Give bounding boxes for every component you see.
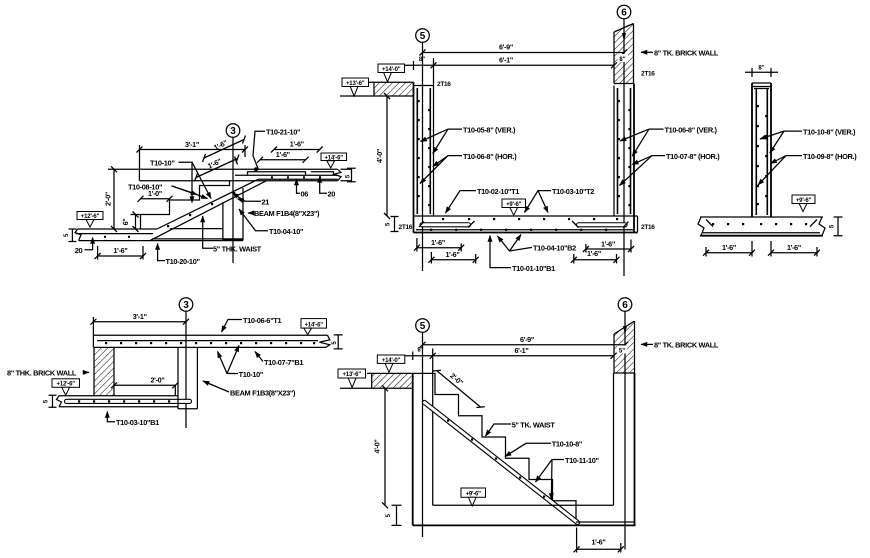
svg-text:+9'-6": +9'-6" — [466, 492, 482, 498]
base slab — [414, 216, 638, 233]
svg-text:T10-20-10": T10-20-10" — [166, 257, 201, 266]
steps — [412, 373, 576, 522]
dim 1'-6" (right) — [771, 252, 817, 254]
bottom landing dots — [104, 236, 130, 238]
svg-text:1'-6": 1'-6" — [113, 246, 127, 255]
svg-text:1'-6": 1'-6" — [587, 249, 601, 258]
dim 5" (right wall) — [617, 346, 627, 354]
svg-text:4'-0": 4'-0" — [373, 439, 382, 453]
grid bubble 6 — [618, 298, 632, 312]
grid bubble 5 — [416, 29, 430, 43]
grid bubble 5 — [416, 319, 430, 333]
top slab — [93, 335, 327, 347]
floor line right of flight — [170, 228, 223, 230]
svg-text:1'-6": 1'-6" — [601, 240, 615, 249]
svg-text:20: 20 — [75, 246, 83, 255]
left wall — [412, 373, 414, 525]
svg-text:+13'-6": +13'-6" — [343, 372, 362, 378]
dim 1'-6" (left) — [706, 252, 752, 254]
svg-text:8": 8" — [619, 57, 625, 63]
elevation marker +12'-6" — [77, 212, 103, 220]
lower slab dots — [78, 400, 170, 402]
elevation marker +12'-6" — [52, 379, 80, 388]
svg-text:T10-09-8" (HOR.): T10-09-8" (HOR.) — [803, 152, 857, 161]
dim 3'-1" — [93, 321, 186, 323]
svg-text:T10-10-8": T10-10-8" — [552, 440, 583, 449]
grid line 6 — [623, 19, 625, 276]
lower slab bar capsule — [67, 399, 190, 404]
dim 6" vertical — [135, 215, 137, 230]
dim 1'-6" (bottom right outer) — [586, 248, 631, 250]
svg-text:2T16: 2T16 — [641, 70, 655, 77]
top rebar T10-21 — [248, 172, 334, 175]
svg-text:T10-06-8" (VER.): T10-06-8" (VER.) — [665, 125, 718, 134]
dim 6'-1" — [434, 64, 615, 66]
elevation marker +14'-0" — [377, 355, 405, 363]
waist slope lines — [150, 179, 266, 240]
base slab bar capsule left — [422, 222, 469, 227]
lower slab — [59, 396, 178, 407]
svg-text:8" THK. BRICK WALL: 8" THK. BRICK WALL — [7, 369, 77, 378]
hatched floor slab (left) — [372, 373, 412, 388]
bracket + 5 (bottom left) — [392, 505, 402, 525]
dim 6'-9" — [423, 52, 625, 54]
VIEW-B — [340, 5, 720, 276]
svg-text:T10-10": T10-10" — [239, 370, 264, 379]
footing bar hooks — [706, 220, 817, 227]
svg-text:3'-1": 3'-1" — [185, 140, 199, 149]
svg-text:2T16: 2T16 — [641, 224, 655, 231]
dim 1'-6" (top right) — [274, 149, 320, 151]
svg-text:T10-03-10"B1: T10-03-10"B1 — [116, 418, 159, 427]
elevation marker +14'-0" — [378, 64, 405, 73]
landing bar dots — [271, 176, 321, 178]
grid line 3 — [232, 137, 234, 263]
grid line 6 — [624, 311, 626, 549]
rotated 5 (right end) — [346, 174, 352, 178]
grid line 3 — [185, 311, 187, 428]
svg-text:8": 8" — [419, 57, 425, 63]
grid line 5 — [422, 332, 424, 537]
T-wall stem — [752, 83, 771, 217]
rotated 5 (slab end) — [332, 341, 338, 345]
svg-text:1'-6": 1'-6" — [290, 140, 304, 149]
dim 2'-0" vertical — [113, 169, 115, 229]
right wall — [613, 86, 615, 217]
svg-text:T10-10-8" (VER.): T10-10-8" (VER.) — [803, 127, 856, 136]
svg-text:T10-04-10": T10-04-10" — [269, 227, 304, 236]
VIEW-C — [698, 65, 857, 256]
svg-text:T10-03-10"T2: T10-03-10"T2 — [552, 187, 594, 196]
svg-text:5": 5" — [619, 349, 625, 355]
svg-text:5: 5 — [420, 31, 426, 42]
svg-text:5: 5 — [420, 321, 426, 332]
end bracket (right) — [347, 168, 356, 182]
elevation marker +9'-6" — [792, 195, 815, 204]
svg-text:T10-21-10": T10-21-10" — [266, 127, 301, 136]
grid bubble 3 — [226, 124, 240, 138]
elevation marker +9'-6" — [502, 199, 526, 208]
landing top surface — [108, 168, 352, 170]
svg-text:5" TK. WAIST: 5" TK. WAIST — [512, 420, 556, 429]
svg-text:BEAM F1B4(8"X23"): BEAM F1B4(8"X23") — [254, 209, 320, 218]
dim 1'-6" (bottom) — [98, 255, 143, 257]
right wall rebar — [618, 88, 631, 214]
svg-text:+14'-6": +14'-6" — [305, 322, 324, 328]
brick wall (hatched, top right) — [614, 24, 634, 84]
dim 1'-6" sloped lower — [196, 159, 238, 178]
footing break left — [698, 217, 704, 236]
svg-text:6": 6" — [121, 219, 130, 226]
brick wall (hatched, top right) — [614, 321, 635, 373]
dim 1'-6" (bottom left outer) — [417, 247, 461, 249]
top slab dots — [105, 342, 315, 344]
svg-text:6'-9": 6'-9" — [499, 43, 513, 52]
svg-text:1'-6": 1'-6" — [431, 238, 445, 247]
svg-text:T10-02-10"T1: T10-02-10"T1 — [477, 187, 519, 196]
svg-text:T10-06-6"T1: T10-06-6"T1 — [243, 316, 282, 325]
VIEW-E — [338, 298, 719, 553]
svg-text:6: 6 — [622, 300, 628, 311]
dim 6'-9" — [423, 344, 626, 346]
svg-text:T10-07-7"B1: T10-07-7"B1 — [264, 358, 303, 367]
VIEW-D — [7, 298, 343, 428]
right wall — [613, 373, 615, 505]
dim 8" (left wall) — [405, 64, 434, 66]
grid arrow on wall top — [623, 326, 627, 335]
svg-text:21: 21 — [262, 198, 270, 207]
left wall rebar — [417, 88, 430, 214]
dim 1'-6" (bottom right) — [577, 548, 621, 550]
svg-text:6'-1": 6'-1" — [499, 56, 513, 65]
svg-text:3: 3 — [183, 300, 189, 311]
svg-text:2T16: 2T16 — [437, 81, 451, 88]
waist band dots — [447, 420, 545, 498]
svg-text:T10-08-10": T10-08-10" — [128, 182, 163, 191]
footing break right — [819, 217, 825, 236]
dim 8" (top) — [745, 71, 778, 73]
bottom landing slab — [76, 229, 243, 241]
svg-text:T10-11-10": T10-11-10" — [565, 456, 600, 465]
dim 2'-0" — [114, 384, 175, 386]
top slab rebar — [97, 340, 318, 342]
VIEW-A — [64, 124, 356, 266]
base slab bar capsule right — [579, 222, 626, 227]
bracket + 5 (bottom left) — [69, 229, 77, 242]
elevation marker +9'-6" — [461, 488, 486, 497]
waist bar band — [425, 403, 578, 523]
svg-text:T10-06-8" (HOR.): T10-06-8" (HOR.) — [463, 152, 517, 161]
svg-text:1'-6": 1'-6" — [445, 250, 459, 259]
elevation marker +13'-6" — [338, 369, 366, 378]
footing — [700, 217, 823, 233]
svg-text:T10-04-10"B2: T10-04-10"B2 — [533, 244, 576, 253]
left wall — [413, 82, 415, 232]
dim 1'-6" sloped upper — [204, 140, 244, 159]
break (bottom landing left) — [75, 229, 81, 241]
svg-text:6'-1": 6'-1" — [514, 346, 528, 355]
svg-text:6: 6 — [621, 8, 627, 19]
bracket + 5 (slab left) — [391, 217, 399, 232]
svg-text:8": 8" — [417, 348, 423, 354]
dim 2'-0" (sloped) — [437, 371, 481, 408]
svg-text:T10-05-8" (VER.): T10-05-8" (VER.) — [463, 125, 516, 134]
landing bottom rebar — [235, 174, 338, 176]
svg-text:3'-1": 3'-1" — [133, 312, 147, 321]
brick wall (hatched) — [94, 348, 114, 396]
svg-text:8" TK. BRICK WALL: 8" TK. BRICK WALL — [654, 48, 719, 57]
dim 3'-1" — [140, 149, 246, 151]
dim 8" (left wall) — [405, 355, 433, 357]
bottom landing — [433, 505, 636, 522]
dim 8" (right wall) — [618, 54, 629, 62]
svg-text:3: 3 — [230, 126, 236, 137]
elevation marker +14'-6" — [321, 153, 347, 161]
beam F1B4 — [223, 188, 243, 240]
dim 4'-0" — [384, 388, 386, 505]
break (lower slab left) — [57, 396, 62, 407]
svg-text:1'-6": 1'-6" — [722, 243, 736, 252]
grid bubble 3 — [179, 298, 193, 312]
dim 1'-0" — [141, 198, 170, 200]
waist rebar dots — [167, 192, 235, 227]
svg-text:2'-0": 2'-0" — [104, 192, 113, 206]
base slab dots — [430, 218, 618, 231]
steps — [141, 181, 230, 229]
break symbol (landing right end) — [334, 169, 341, 181]
svg-text:T10-10": T10-10" — [150, 158, 175, 167]
bracket + 5 (footing right) — [834, 217, 843, 236]
hatched floor slab (left) — [374, 82, 414, 96]
svg-text:6'-9": 6'-9" — [520, 335, 534, 344]
capsule end hooks — [419, 221, 629, 228]
wall rebar — [756, 89, 767, 215]
landing soffit — [139, 179, 352, 181]
grid arrow on wall top — [622, 33, 626, 42]
svg-text:5" THK. WAIST: 5" THK. WAIST — [213, 244, 262, 253]
grid line 5 — [422, 42, 424, 271]
end bracket — [334, 335, 343, 349]
elevation marker +14'-6" — [301, 319, 327, 329]
svg-text:8" TK. BRICK WALL: 8" TK. BRICK WALL — [654, 341, 719, 350]
label BEAM F1B4(8"X23") — [248, 212, 253, 214]
svg-text:06: 06 — [301, 189, 309, 198]
svg-text:20: 20 — [328, 189, 336, 198]
svg-text:1'-6": 1'-6" — [276, 150, 290, 159]
svg-text:1'-6": 1'-6" — [591, 538, 605, 547]
svg-text:2T16: 2T16 — [399, 224, 413, 231]
svg-text:1'-6": 1'-6" — [787, 243, 801, 252]
grid bubble 6 — [617, 5, 631, 19]
dim 1'-6" (bottom left inner) — [431, 259, 475, 261]
witness tick rotated dim — [235, 157, 238, 165]
footing dots — [712, 223, 807, 225]
dim 1'-6" (second right) — [260, 159, 306, 161]
elevation marker +13'-6" — [342, 78, 369, 87]
break (slab right end) — [319, 335, 329, 347]
svg-text:T10-07-8" (HOR.): T10-07-8" (HOR.) — [666, 152, 720, 161]
dim 1'-6" (bottom right inner) — [574, 259, 617, 261]
slab left edge — [138, 169, 140, 181]
dim 4'-0" — [386, 96, 388, 216]
svg-text:BEAM F1B3(8"X23"): BEAM F1B3(8"X23") — [230, 388, 296, 397]
beam F1B3 — [178, 347, 197, 408]
svg-text:8": 8" — [758, 65, 764, 71]
dim 6'-1" — [433, 355, 614, 357]
svg-text:2'-0": 2'-0" — [150, 376, 164, 385]
svg-text:4'-0": 4'-0" — [375, 149, 384, 163]
svg-text:T10-01-10"B1: T10-01-10"B1 — [512, 264, 555, 273]
bracket + 5 (lower slab left) — [49, 395, 57, 407]
